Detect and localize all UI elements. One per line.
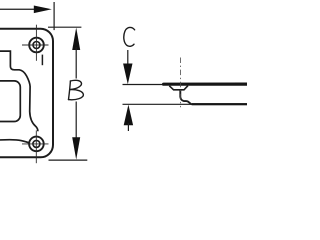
screw hole bottom: horizontal centerline xyxy=(22,143,49,145)
label C (hand-drawn style) xyxy=(124,27,135,46)
dimension B: top extension line xyxy=(48,26,81,28)
dimension B: top arrowhead (up) xyxy=(72,28,80,51)
hinge ear line (front view) xyxy=(41,55,43,66)
screw hole bottom: vertical centerline xyxy=(35,130,37,163)
screw hole top: outer circle xyxy=(29,38,44,53)
side view: plate bar xyxy=(164,82,247,85)
dimension C: upper arrowhead (down) xyxy=(123,64,132,85)
dimension C: bottom extension line xyxy=(123,103,248,105)
side view: handle bottom thick line xyxy=(192,103,247,105)
dimension B: bottom extension line xyxy=(49,159,88,161)
dimension C: lower leader line xyxy=(127,123,129,131)
dimension A: right arrowhead xyxy=(34,5,52,13)
screw hole top: horizontal centerline xyxy=(22,44,49,46)
dimension C: upper leader line xyxy=(127,50,129,65)
side view: recess cup profile xyxy=(169,86,188,90)
dimension B: lower line segment xyxy=(75,102,77,141)
dimension A: line at top xyxy=(0,8,35,10)
dimension C: top extension line xyxy=(123,84,165,86)
screw hole top: vertical centerline xyxy=(35,25,37,61)
side view: handle profile curve xyxy=(180,90,247,104)
screw hole top: inner circle xyxy=(33,42,40,49)
recess bottom contour (front view) xyxy=(0,140,30,143)
dimension C: lower arrowhead (up) xyxy=(124,105,133,126)
label B (hand-drawn style) xyxy=(69,80,84,99)
screw hole bottom: inner circle xyxy=(33,140,40,147)
dimension A: extension line (plate right edge) xyxy=(53,2,55,30)
screw hole bottom: outer circle xyxy=(29,137,44,152)
dimension B: bottom arrowhead (down) xyxy=(72,137,80,159)
dimension B: upper line segment xyxy=(75,47,77,79)
recess cup contour (front view) xyxy=(0,51,38,131)
side view: hinge centerline (dash-dot) xyxy=(180,58,182,108)
plate outline (front view) xyxy=(0,29,53,158)
handle inner opening (rounded rect, front view) xyxy=(0,81,20,122)
